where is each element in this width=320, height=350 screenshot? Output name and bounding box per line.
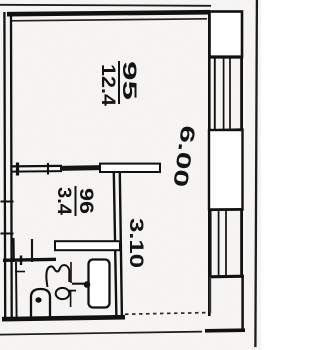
top scan border line xyxy=(0,5,211,6)
interior vertical wall west line (kitchen/bath to hallway) xyxy=(114,172,117,317)
interior vertical wall east line xyxy=(120,172,122,317)
sink squiggle xyxy=(46,265,69,287)
top wall inner thin line xyxy=(11,19,207,21)
label kitchen 96/3.4 xyxy=(53,186,96,216)
label hallway 3.10 xyxy=(125,218,146,268)
bathroom block bottom wall (apartment bottom, thick) xyxy=(2,317,125,319)
sink bowl oval xyxy=(56,288,70,299)
window 2 outer line xyxy=(240,210,243,276)
left wall tick 2 xyxy=(1,233,14,235)
toilet flush dot xyxy=(35,297,41,302)
svg-text:3.4: 3.4 xyxy=(53,187,74,215)
interior wall hollow bar section xyxy=(100,164,160,172)
window 2 line b xyxy=(218,210,220,276)
window 2 line a xyxy=(210,210,212,276)
window 1 outer line xyxy=(240,57,243,130)
door jamb tick B on interior wall xyxy=(47,163,49,175)
sink outlet line xyxy=(69,290,76,292)
right interior wall face line xyxy=(208,14,211,316)
window 1 line b xyxy=(223,58,225,130)
interior wall living/kitchen lower line xyxy=(11,170,62,173)
svg-text:95: 95 xyxy=(118,61,140,100)
window 1 line c xyxy=(229,58,231,130)
interior wall living/kitchen upper line xyxy=(11,165,62,168)
kitchen bottom hollow wall bar xyxy=(55,241,120,250)
label living room 95/12.4 xyxy=(97,61,140,106)
left exterior wall outer line xyxy=(3,12,6,321)
right wall pier box 2 xyxy=(209,130,243,210)
pier box 2 bottom edge xyxy=(208,208,244,211)
bottom scan border line xyxy=(0,332,202,335)
left exterior wall inner line xyxy=(10,14,13,318)
toilet xyxy=(31,289,50,318)
label 6.00 xyxy=(168,124,198,188)
svg-text:96: 96 xyxy=(75,188,96,214)
bathtub xyxy=(89,260,110,308)
bath partition lower segment xyxy=(70,291,72,307)
svg-text:12.4: 12.4 xyxy=(97,64,119,106)
bathtub drain dot xyxy=(84,281,91,288)
svg-text:3.10: 3.10 xyxy=(125,218,146,268)
kitchen door stub 1 xyxy=(12,238,14,262)
door jamb tick A on interior wall xyxy=(16,163,19,176)
stair landing box bottom thick edge xyxy=(205,328,245,332)
top exterior wall (thick) xyxy=(7,12,210,14)
entrance threshold dashed line xyxy=(125,313,208,315)
window 1 sill line xyxy=(209,128,244,131)
window 1 line a xyxy=(214,58,216,130)
stair landing box west edge xyxy=(209,277,211,313)
right wall pier box 1 xyxy=(210,12,243,58)
toilet room door tick xyxy=(15,271,25,273)
right scan border line xyxy=(255,0,257,347)
sink-to-bath pipe line xyxy=(72,283,84,285)
toilet room top wall tick xyxy=(20,256,22,266)
toilet room west partition xyxy=(15,262,18,318)
stair landing box east edge xyxy=(241,277,244,331)
toilet room top wall xyxy=(3,259,56,260)
window 2 sill thick line xyxy=(209,275,245,279)
bath partition upper segment xyxy=(70,262,72,283)
left wall tick 1 xyxy=(1,201,14,203)
kitchen door stub 2 xyxy=(31,239,33,262)
window 2 line c xyxy=(225,210,227,276)
interior wall merged thick segment xyxy=(60,165,101,171)
pier box 1 bottom thick edge xyxy=(209,55,243,58)
